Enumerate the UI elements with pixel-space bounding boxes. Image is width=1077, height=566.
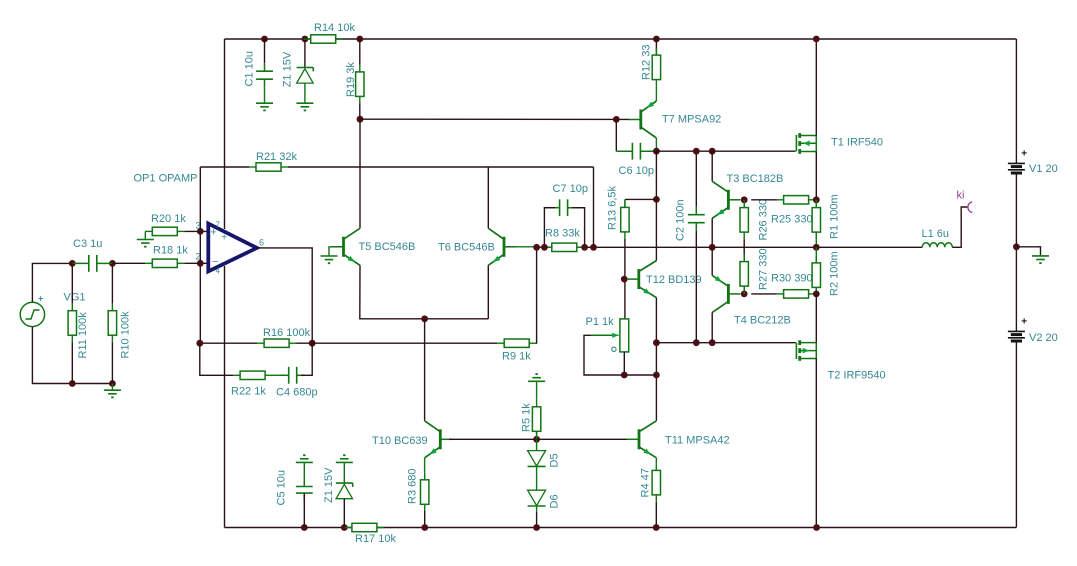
ground under Z1 (304, 83, 306, 102)
wire (623, 352, 625, 375)
potentiometer P1 (620, 319, 629, 352)
node: R12 top (653, 36, 660, 43)
svg-text:6: 6 (259, 238, 264, 248)
ground under R10 (111, 384, 113, 390)
wire (656, 150, 795, 152)
resistor R10 (111, 263, 113, 303)
svg-text:Z1 15V: Z1 15V (323, 467, 335, 503)
transistor T12 BD139 (NPN) (637, 269, 640, 289)
wire (225, 527, 1017, 529)
node: R8 right (581, 244, 588, 251)
svg-text:−: − (212, 256, 218, 268)
ground at T5 base (329, 247, 343, 256)
capacitor C2 (695, 151, 697, 207)
node: R13 top tap (653, 196, 660, 203)
wire (112, 262, 145, 264)
ground under C1 (264, 87, 266, 103)
wire (449, 438, 534, 440)
wire (257, 248, 312, 343)
wire (743, 239, 745, 262)
resistor R2 (815, 247, 817, 263)
node: T4 collector / gate row (709, 339, 716, 346)
resistor R22 (233, 374, 240, 376)
node: Z1 top (302, 36, 309, 43)
node: T1 drain / +rail (813, 36, 820, 43)
svg-text:R19 3k: R19 3k (345, 62, 357, 97)
wire (359, 119, 361, 228)
resistor R13 (624, 199, 626, 207)
transistor T4 BC212B (PNP, mirrored) (727, 284, 730, 304)
resistor R26 (743, 200, 745, 208)
wire (815, 39, 817, 136)
wire (711, 312, 713, 342)
wire (487, 167, 489, 228)
node: op-amp pin 3 (197, 228, 204, 235)
wire (655, 138, 657, 151)
resistor R11 (71, 263, 73, 303)
svg-text:R10 100k: R10 100k (119, 311, 131, 359)
svg-text:R14 10k: R14 10k (314, 22, 355, 34)
node: VG1/R11/C3 junction (69, 260, 76, 267)
svg-text:V2 20: V2 20 (1029, 332, 1058, 344)
wire (1015, 39, 1017, 163)
wire (593, 167, 595, 247)
mosfet T2 IRF9540 (P-channel) (795, 343, 797, 359)
node: T6 base / output-rail / R9 (533, 244, 540, 251)
node: R14 right / R19 top (356, 36, 363, 43)
capacitor C7 (559, 199, 561, 216)
wire (301, 343, 312, 375)
wire (572, 208, 585, 248)
node: T7 base / C6 left (613, 116, 620, 123)
svg-text:OP1 OPAMP: OP1 OPAMP (134, 173, 198, 185)
svg-text:D5: D5 (549, 453, 561, 467)
wire (624, 239, 626, 319)
svg-text:T12 BD139: T12 BD139 (646, 274, 702, 286)
svg-text:+: + (221, 232, 227, 243)
svg-text:R30 390: R30 390 (771, 273, 813, 285)
svg-text:R21 32k: R21 32k (256, 151, 297, 163)
svg-text:C7 10p: C7 10p (553, 183, 588, 195)
svg-text:T3 BC182B: T3 BC182B (727, 173, 784, 185)
node: T3 emitter / output rail (709, 244, 716, 251)
svg-text:ki: ki (957, 190, 965, 202)
node: R19 bottom / T7 base / T5 collector (357, 116, 364, 123)
svg-text:C3 1u: C3 1u (73, 238, 102, 250)
node: R3 bottom (421, 524, 428, 531)
node: T3 base / R26 / R25 (741, 196, 748, 203)
wire (288, 166, 594, 168)
wire (200, 342, 257, 344)
node: R11 bottom (69, 380, 76, 387)
node: T2 source / bottom rail (813, 524, 820, 531)
node: R2 / R30 / T2 drain (813, 291, 820, 298)
svg-text:T7 MPSA92: T7 MPSA92 (662, 114, 721, 126)
svg-text:+: + (210, 227, 216, 239)
wire (424, 319, 426, 421)
resistor R30 (777, 293, 784, 295)
node: base row / R5 / D5 (533, 436, 540, 443)
svg-text:T6 BC546B: T6 BC546B (438, 242, 495, 254)
svg-text:+: + (1021, 148, 1027, 159)
zener Z1 (bottom) (343, 462, 345, 483)
wire (711, 218, 713, 247)
resistor R9 (497, 342, 504, 344)
wire (537, 438, 628, 440)
battery V1 (1008, 162, 1025, 164)
wire (360, 118, 630, 120)
wire (487, 265, 489, 319)
svg-text:R2 100m: R2 100m (829, 251, 841, 296)
ground at R20 left (144, 231, 146, 239)
node: T12 emitter / gate row (653, 339, 660, 346)
ground above Z1 bottom (flipped) (336, 461, 353, 463)
battery V2 (1008, 330, 1025, 332)
wire (815, 359, 817, 528)
node: C1 top (261, 36, 268, 43)
wire (711, 247, 713, 275)
node: C2 top (693, 148, 700, 155)
svg-text:R9 1k: R9 1k (502, 351, 531, 363)
wire (535, 247, 537, 343)
diode D6 (536, 466, 538, 490)
wire (505, 246, 533, 248)
wire (32, 263, 72, 302)
node: R4 bottom (653, 524, 660, 531)
resistor R16 (257, 342, 264, 344)
svg-text:Z1 15V: Z1 15V (282, 51, 294, 87)
node: C2 bottom (693, 339, 700, 346)
mosfet T1 IRF540 (N-channel) (795, 135, 797, 151)
op-amp U1 OP1 (208, 224, 257, 272)
svg-text:R1 100m: R1 100m (829, 194, 841, 239)
svg-text:T2 IRF9540: T2 IRF9540 (828, 370, 886, 382)
capacitor C3 (88, 255, 90, 272)
voltage source VG1 (20, 302, 44, 326)
output probe ki (968, 202, 972, 212)
node: op-amp pin 2 (197, 260, 204, 267)
svg-text:+: + (38, 294, 43, 304)
svg-text:T1 IRF540: T1 IRF540 (831, 137, 883, 149)
wire (656, 342, 795, 344)
svg-text:3: 3 (196, 221, 201, 231)
svg-text:VG1: VG1 (64, 292, 86, 304)
node: R8 left (541, 244, 548, 251)
resistor R27 (743, 255, 745, 262)
ground above R5 (flipped) (528, 380, 545, 382)
node: C5 bottom (301, 524, 308, 531)
transistor T5 BC546B (NPN) (342, 237, 345, 257)
node: supply midpoint (1013, 243, 1020, 250)
svg-text:C4 680p: C4 680p (276, 387, 318, 399)
node: R21 feedback tap (590, 244, 597, 251)
capacitor C4 (288, 367, 290, 384)
ground above C5 (flipped) (296, 461, 313, 463)
resistor R1 (815, 200, 817, 208)
wire (200, 166, 249, 168)
svg-text:R13 6,5k: R13 6,5k (607, 185, 619, 230)
svg-text:R4 47: R4 47 (640, 468, 652, 497)
svg-text:T4 BC212B: T4 BC212B (734, 315, 791, 327)
wire (184, 230, 208, 232)
wire (32, 327, 112, 384)
resistor R5 (536, 381, 538, 400)
svg-text:R20 1k: R20 1k (151, 213, 186, 225)
svg-text:C2 100n: C2 100n (675, 199, 687, 241)
node: T12 base (621, 276, 628, 283)
svg-text:R5 1k: R5 1k (521, 403, 533, 432)
node: VAS out / C6 right (653, 148, 660, 155)
wire (224, 266, 226, 528)
diode D5 (536, 439, 538, 450)
resistor R4 (655, 463, 657, 470)
wire (184, 262, 208, 264)
wire (225, 38, 1017, 40)
svg-text:R16 100k: R16 100k (263, 327, 311, 339)
wire (200, 343, 233, 375)
svg-text:C6 10p: C6 10p (619, 165, 654, 177)
node: tail junction (421, 315, 428, 322)
resistor R25 (777, 199, 784, 201)
svg-text:R26 330: R26 330 (758, 199, 770, 241)
svg-text:C5 10u: C5 10u (276, 470, 288, 505)
node: pot bottom (621, 372, 628, 379)
node: Z1(bottom) anode (341, 524, 348, 531)
ground at supply midpoint (1016, 247, 1040, 256)
wire (534, 246, 923, 248)
node: R16 left / feedback (196, 340, 203, 347)
resistor R14 (304, 38, 311, 40)
svg-text:R17 10k: R17 10k (355, 533, 396, 545)
node: R1 bottom / output rail (813, 244, 820, 251)
wire (655, 87, 657, 101)
wire (711, 151, 713, 181)
capacitor C5 (303, 462, 305, 479)
wire (544, 208, 555, 248)
svg-text:T10 BC639: T10 BC639 (372, 435, 428, 447)
wire (296, 342, 312, 344)
resistor R18 (145, 262, 152, 264)
svg-text:T11 MPSA42: T11 MPSA42 (665, 435, 730, 447)
svg-text:C1 10u: C1 10u (244, 51, 256, 86)
wire (424, 458, 426, 473)
node: emitter column / P1 return (653, 372, 660, 379)
capacitor C1 (264, 39, 266, 63)
svg-text:D6: D6 (549, 494, 561, 508)
wire (751, 293, 776, 295)
wire (952, 207, 968, 247)
svg-text:R11 100k: R11 100k (77, 312, 89, 359)
resistor R17 (345, 527, 352, 529)
wire (815, 152, 817, 200)
transistor T10 BC639 (NPN, mirrored) (439, 429, 442, 449)
zener Z1 (top) (304, 39, 306, 68)
node: R10 bottom (109, 380, 116, 387)
svg-text:T5 BC546B: T5 BC546B (359, 241, 416, 253)
resistor R12 (655, 39, 657, 55)
resistor R3 (424, 473, 426, 480)
node: R16 right / op-amp out (309, 340, 316, 347)
wire (655, 458, 657, 464)
svg-text:V1 20: V1 20 (1029, 163, 1058, 175)
transistor T6 BC546B (NPN, mirrored) (503, 237, 506, 257)
wire (625, 198, 657, 200)
resistor R19 (359, 39, 361, 65)
node: C3/R18/R10 junction (109, 260, 116, 267)
svg-text:R18 1k: R18 1k (153, 245, 188, 257)
svg-text:R12 33: R12 33 (641, 45, 653, 80)
transistor T7 MPSA92 (PNP) (639, 110, 642, 130)
wire (584, 335, 656, 375)
resistor R20 (145, 230, 152, 232)
svg-text:R3 680: R3 680 (407, 469, 419, 504)
svg-text:R25 330: R25 330 (771, 214, 813, 226)
wire (536, 506, 538, 512)
transistor T11 MPSA42 (NPN) (638, 429, 641, 449)
svg-text:R8 33k: R8 33k (545, 228, 580, 240)
node: T4 base / R27 / R30 (741, 291, 748, 298)
wire (224, 39, 226, 229)
node: D6 bottom (533, 524, 540, 531)
node: T1 source / R25 / R1 (813, 196, 820, 203)
svg-text:P1 1k: P1 1k (586, 316, 615, 328)
resistor R8 (545, 246, 552, 248)
inductor L1 (922, 243, 952, 248)
wire (360, 265, 489, 319)
wire (199, 167, 201, 343)
wire (815, 294, 817, 343)
wire (655, 151, 657, 260)
wire (312, 342, 497, 344)
wire (272, 374, 284, 376)
transistor T3 BC182B (NPN, mirrored) (727, 190, 730, 210)
svg-text:2: 2 (196, 252, 201, 262)
wire (655, 298, 657, 421)
svg-text:L1 6u: L1 6u (922, 228, 950, 240)
resistor R21 (249, 166, 256, 168)
svg-text:R27 330: R27 330 (758, 248, 770, 290)
capacitor C6 (615, 119, 617, 151)
svg-text:+: + (1021, 316, 1027, 327)
wire (751, 199, 776, 201)
node: T3 collector line top (709, 148, 716, 155)
svg-text:R22 1k: R22 1k (231, 386, 266, 398)
